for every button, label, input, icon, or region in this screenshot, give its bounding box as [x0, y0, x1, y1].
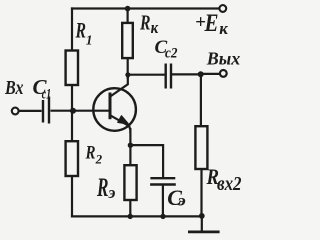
- node collector junction dot: [125, 72, 130, 77]
- terminal +Ek: [219, 5, 226, 12]
- wire base node to R2 top: [71, 109, 73, 141]
- svg-text:R: R: [139, 11, 150, 35]
- wire bottom rail: [71, 215, 202, 217]
- transistor base bar: [109, 93, 112, 120]
- ground: [188, 230, 220, 233]
- wire Rk bottom to collector node: [127, 58, 129, 79]
- wire R2 bottom to ground rail: [71, 176, 73, 217]
- svg-text:E: E: [204, 10, 219, 37]
- resistor R2: [66, 141, 78, 176]
- wire top supply rail: [71, 7, 219, 9]
- node base junction dot: [70, 108, 76, 114]
- wire Rk top to rail: [126, 9, 128, 23]
- svg-text:1: 1: [86, 33, 93, 48]
- svg-text:R: R: [96, 173, 108, 202]
- transistor collector line: [110, 76, 127, 96]
- capacitor Ce: [150, 178, 176, 184]
- node ground junction dot: [199, 213, 205, 219]
- wire Re bottom to rail: [129, 200, 131, 216]
- wire emitter down to emitter node: [129, 128, 131, 165]
- svg-text:R: R: [85, 144, 96, 164]
- wire output node to output terminal: [201, 73, 220, 75]
- resistor Rk: [122, 23, 133, 58]
- node Ce rail junction dot: [160, 214, 165, 219]
- svg-text:к: к: [219, 19, 228, 38]
- svg-text:с2: с2: [165, 45, 178, 61]
- svg-text:вх2: вх2: [217, 173, 242, 195]
- wire Cc1 to base of transistor: [51, 110, 110, 112]
- resistor Rvx2: [195, 126, 207, 169]
- svg-text:к: к: [151, 18, 159, 37]
- transistor emitter line: [110, 115, 130, 133]
- terminal input Vx: [12, 108, 19, 115]
- svg-text:R: R: [75, 18, 86, 43]
- transistor VT circle: [93, 88, 136, 131]
- svg-text:э: э: [177, 193, 187, 210]
- svg-text:э: э: [107, 183, 115, 202]
- node junction dot top rail / Rk: [125, 6, 131, 12]
- wire R1 bottom to base node: [71, 85, 73, 112]
- terminal output Vyx: [220, 70, 227, 77]
- node emitter junction dot: [128, 143, 133, 148]
- capacitor Cc2: [166, 64, 171, 89]
- resistor Re: [124, 165, 136, 200]
- svg-text:Вых: Вых: [206, 48, 241, 68]
- wire input terminal to Cc1: [18, 110, 41, 112]
- wire Rvx2 bottom to rail: [200, 169, 202, 216]
- capacitor Cc1: [43, 97, 49, 124]
- node output junction dot: [198, 71, 204, 77]
- node Re rail junction dot: [128, 214, 133, 219]
- transistor emitter arrow: [118, 116, 128, 124]
- svg-text:Вх: Вх: [4, 77, 23, 99]
- wire left column above R1: [71, 7, 73, 50]
- wire collector node to Cc2: [128, 74, 165, 76]
- resistor R1: [66, 51, 78, 86]
- wire emitter node to Ce: [130, 144, 163, 177]
- wire Cc2 to output node: [172, 73, 201, 75]
- wire Ce bottom to rail: [162, 186, 164, 217]
- svg-text:с1: с1: [42, 87, 52, 103]
- wire output node down to Rvx2: [200, 74, 202, 126]
- wire ground stub: [201, 216, 203, 231]
- svg-text:2: 2: [95, 152, 103, 167]
